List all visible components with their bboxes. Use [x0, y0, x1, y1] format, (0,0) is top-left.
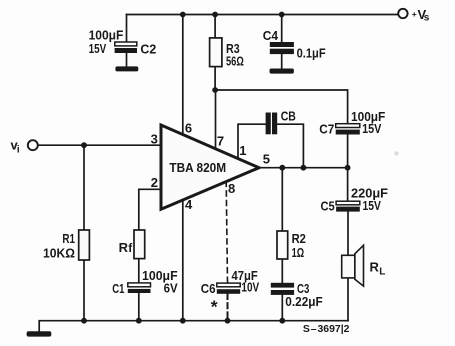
svg-text:2: 2: [151, 175, 158, 190]
svg-text:10KΩ: 10KΩ: [43, 245, 75, 260]
wire speaker to ground rail: [347, 278, 349, 321]
wire C4 top: [281, 15, 283, 43]
capacitor C2: [115, 42, 137, 53]
svg-text:C7: C7: [319, 122, 334, 137]
wire output node: [258, 167, 348, 169]
wire C2 to bar: [126, 53, 128, 66]
op-amp U1 TBA820M triangle: [161, 125, 259, 209]
wire R1 bottom: [83, 260, 85, 321]
wire ground rail: [39, 321, 348, 332]
wire pin 4: [182, 199, 184, 321]
svg-text:15V: 15V: [362, 121, 382, 136]
svg-text:C2: C2: [140, 42, 156, 57]
svg-text:0.1μF: 0.1μF: [297, 46, 326, 61]
svg-text:3: 3: [151, 132, 158, 147]
svg-text:C6: C6: [201, 281, 216, 296]
svg-text:R1: R1: [62, 231, 75, 246]
svg-text:6: 6: [185, 121, 192, 136]
capacitor C3: [271, 283, 294, 295]
svg-text:+: +: [412, 9, 417, 19]
svg-text:i: i: [17, 145, 20, 156]
svg-text:S – 3697|2: S – 3697|2: [303, 323, 350, 335]
wire pin 2 to Rf: [139, 189, 161, 230]
svg-text:6V: 6V: [164, 281, 178, 296]
capacitor C5: [336, 201, 360, 211]
wire pin 7: [215, 90, 217, 150]
svg-text:s: s: [424, 13, 430, 24]
ground bar below C2: [115, 66, 138, 71]
svg-text:1Ω: 1Ω: [292, 245, 305, 260]
wire C7 bottom to output: [347, 135, 349, 168]
ground bar below C4: [270, 69, 294, 74]
resistor R3: [210, 38, 222, 67]
wire C4 bottom stub: [281, 54, 283, 69]
svg-text:0.22μF: 0.22μF: [285, 294, 322, 309]
svg-text:R: R: [370, 260, 380, 275]
svg-text:C4: C4: [263, 28, 279, 43]
svg-text:R2: R2: [292, 231, 306, 246]
svg-text:L: L: [379, 267, 385, 278]
wire pin 1 to CB: [238, 124, 266, 159]
wire R2 top: [281, 168, 283, 231]
capacitor C4: [270, 42, 294, 54]
svg-text:R: R: [119, 240, 129, 255]
svg-text:1: 1: [239, 143, 246, 158]
wire pin 8 dashed to C6: [226, 181, 227, 283]
speaker RL cone: [355, 245, 364, 286]
svg-text:C1: C1: [112, 281, 124, 296]
wire R1 top: [83, 145, 85, 230]
speaker RL driver: [342, 255, 355, 278]
capacitor CB: [266, 113, 278, 135]
svg-text:15V: 15V: [89, 41, 107, 56]
terminal Vi: [28, 140, 38, 150]
wire pin 6: [182, 15, 184, 137]
svg-text:15V: 15V: [363, 198, 382, 213]
wire R2 to C3: [281, 259, 283, 283]
svg-text:f: f: [128, 241, 133, 255]
wire output to C5: [347, 168, 349, 202]
wire R3 top: [214, 15, 216, 39]
svg-text:56Ω: 56Ω: [226, 54, 244, 69]
svg-text:8: 8: [228, 181, 235, 196]
wire top supply rail: [127, 14, 399, 16]
wire C1 to ground rail: [138, 293, 140, 321]
svg-text:CB: CB: [281, 108, 296, 123]
ground symbol: [27, 331, 52, 336]
terminal +Vs: [398, 9, 407, 18]
svg-text:4: 4: [185, 197, 193, 212]
capacitor C7: [336, 124, 360, 135]
svg-text:5: 5: [263, 152, 270, 167]
capacitor C1: [128, 283, 151, 293]
resistor R1: [79, 230, 90, 260]
wire Rf to C1: [138, 259, 140, 283]
wire input to pin 3: [38, 144, 161, 146]
wire CB right to output: [277, 124, 303, 168]
resistor R2: [277, 231, 288, 259]
resistor Rf: [134, 230, 145, 259]
svg-text:*: *: [211, 296, 218, 316]
svg-text:TBA 820M: TBA 820M: [169, 160, 226, 175]
wire C6 to ground rail dashed: [227, 294, 229, 321]
wire C5 to speaker: [347, 211, 349, 255]
svg-text:10V: 10V: [241, 280, 259, 295]
speck (scan artifact): [394, 151, 398, 155]
wire R3 bottom to node: [214, 67, 216, 90]
wire node to C7 top: [215, 90, 348, 124]
wire C2 to rail: [126, 15, 128, 43]
svg-text:C5: C5: [321, 199, 335, 214]
svg-text:7: 7: [217, 134, 224, 149]
wire C3 to ground rail: [281, 295, 283, 321]
capacitor C6: [217, 283, 240, 294]
